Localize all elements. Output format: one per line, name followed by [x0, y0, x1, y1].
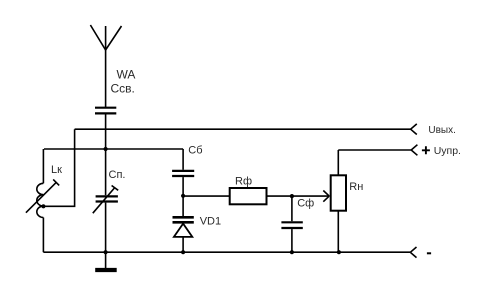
svg-text:Uупр.: Uупр. [434, 145, 461, 157]
svg-text:Rф: Rф [235, 176, 252, 188]
svg-text:VD1: VD1 [200, 215, 221, 227]
svg-text:Rн: Rн [349, 181, 363, 193]
svg-text:Сп.: Сп. [109, 169, 126, 181]
svg-text:WA: WA [117, 68, 136, 82]
svg-text:Lк: Lк [51, 164, 62, 176]
svg-text:Сф: Сф [297, 197, 314, 209]
svg-text:Uвых.: Uвых. [428, 125, 456, 136]
svg-text:Ссв.: Ссв. [111, 82, 135, 96]
svg-text:Сб: Сб [188, 144, 202, 156]
